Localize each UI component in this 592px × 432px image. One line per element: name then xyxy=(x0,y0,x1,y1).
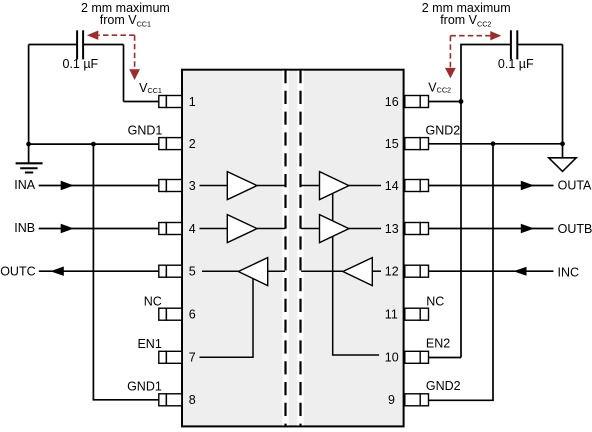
arrow INB input xyxy=(61,224,74,233)
junction GND2 drop xyxy=(491,141,496,146)
pin 14 box xyxy=(405,180,429,192)
svg-text:0.1 µF: 0.1 µF xyxy=(63,57,99,71)
svg-text:10: 10 xyxy=(385,351,399,365)
GND1 bus wire xyxy=(29,143,159,145)
red arrowhead down to VCC2 xyxy=(445,68,456,78)
wire buffer A2 to pin 14 xyxy=(349,185,381,187)
buffer C2 (input, points left) xyxy=(343,258,372,286)
pin 1 box xyxy=(159,96,182,108)
svg-text:GND1: GND1 xyxy=(128,124,163,138)
IC U1 body xyxy=(182,70,404,427)
pin 16 box xyxy=(405,96,429,108)
svg-text:0.1 µF: 0.1 µF xyxy=(498,57,534,71)
pin 13 box xyxy=(405,223,429,235)
wire barrier to buffer A2 xyxy=(301,185,319,187)
wire buffer A1 to barrier xyxy=(257,185,285,187)
svg-text:11: 11 xyxy=(385,308,398,322)
svg-text:16: 16 xyxy=(385,95,399,109)
pin 9 box xyxy=(405,394,429,406)
svg-text:8: 8 xyxy=(189,393,196,407)
svg-text:2: 2 xyxy=(189,137,196,151)
buffer B1 xyxy=(227,215,257,243)
buffer A2 xyxy=(320,172,349,200)
junction ground node xyxy=(26,142,31,147)
wire pin 16 to VCC2 node xyxy=(429,101,462,103)
isolation gap white stripe left xyxy=(282,71,288,426)
capacitor C2 0.1uF plates xyxy=(511,30,517,59)
GND2 bus wire xyxy=(429,143,563,145)
svg-text:GND1: GND1 xyxy=(127,379,162,393)
svg-text:OUTA: OUTA xyxy=(558,178,592,192)
wire barrier to buffer B2 xyxy=(301,228,319,230)
wire OUTB from pin 13 xyxy=(429,228,554,230)
svg-text:OUTC: OUTC xyxy=(0,265,35,279)
wire C1 left plate to left rail xyxy=(29,44,78,46)
svg-text:NC: NC xyxy=(426,295,444,309)
svg-text:NC: NC xyxy=(144,295,162,309)
wire EN1 inner xyxy=(200,279,254,358)
svg-text:GND2: GND2 xyxy=(426,123,461,137)
pin 6 box xyxy=(159,308,182,320)
wire OUTA from pin 14 xyxy=(429,185,554,187)
svg-text:6: 6 xyxy=(189,308,196,322)
wire VCC1 into pin 1 xyxy=(124,101,159,103)
wire VCC2 node up to C2 left plate and down to EN2 xyxy=(461,45,511,358)
svg-text:1: 1 xyxy=(189,95,196,109)
wire pin 3 to buffer A1 xyxy=(200,185,228,187)
pin 11 box xyxy=(405,308,429,320)
pin 15 box xyxy=(405,138,429,150)
junction VCC2 node xyxy=(459,99,464,104)
wire left rail down to GND1 bus xyxy=(28,45,30,145)
isolation gap white stripe right xyxy=(297,71,303,426)
wire GND2 drop to pin 9 xyxy=(429,144,494,401)
pin 4 box xyxy=(159,223,182,235)
arrow OUTA output xyxy=(521,181,534,190)
buffer B2 xyxy=(320,215,349,243)
svg-text:7: 7 xyxy=(189,351,196,365)
wire right rail down to GND2 bus xyxy=(562,45,564,144)
wire INA to pin 3 xyxy=(39,185,159,187)
red dashed arrow to C2 xyxy=(450,36,490,69)
pin 5 box xyxy=(159,265,182,277)
wire pin 5 to buffer C1out xyxy=(202,270,238,272)
svg-text:4: 4 xyxy=(189,222,196,236)
svg-text:15: 15 xyxy=(385,137,399,151)
pin 2 box xyxy=(159,138,182,150)
wire buffer C1out to barrier xyxy=(268,270,285,272)
wire buffer B2 to pin 13 xyxy=(349,228,381,230)
wire GND1 drop to pin 8 xyxy=(93,144,158,400)
isolation barrier dashed line right xyxy=(299,70,301,426)
buffer A1 xyxy=(227,172,257,200)
svg-text:EN1: EN1 xyxy=(137,337,161,351)
svg-text:INA: INA xyxy=(14,178,36,192)
wire INC to pin 12 xyxy=(429,270,554,272)
wire buffer B1 to barrier xyxy=(257,228,285,230)
wire pin 4 to buffer B1 xyxy=(200,228,228,230)
wire pin 12 to buffer C2in xyxy=(372,270,381,272)
svg-text:INC: INC xyxy=(558,265,580,279)
ground symbol right (triangle) xyxy=(562,144,564,158)
svg-text:OUTB: OUTB xyxy=(558,222,592,236)
svg-text:5: 5 xyxy=(189,265,196,279)
svg-text:12: 12 xyxy=(385,265,399,279)
pin 3 box xyxy=(159,180,182,192)
junction GND1 drop xyxy=(91,142,96,147)
capacitor C1 0.1uF plates xyxy=(77,30,83,59)
svg-text:GND2: GND2 xyxy=(426,379,461,393)
wire C2 right plate to right rail xyxy=(517,44,562,46)
wire OUTC from pin 5 xyxy=(39,270,159,272)
arrow OUTB output xyxy=(521,224,534,233)
svg-text:3: 3 xyxy=(189,179,196,193)
svg-text:14: 14 xyxy=(385,179,399,193)
pin 10 box xyxy=(405,351,429,363)
wire EN2 inner xyxy=(333,193,379,355)
ground symbol left (earth) xyxy=(16,144,43,172)
wire buffer C2in to barrier xyxy=(301,270,343,272)
svg-text:INB: INB xyxy=(14,221,35,235)
wire C1 right plate to corner xyxy=(83,44,123,46)
red arrowhead down to VCC1 xyxy=(129,69,140,80)
arrow INA input xyxy=(61,181,74,190)
pin 7 box xyxy=(159,351,182,363)
red dashed arrow to C1 xyxy=(99,35,135,70)
pin 8 box xyxy=(159,394,182,406)
isolation barrier dashed line left xyxy=(284,70,286,426)
wire EN2 to VCC2 rail xyxy=(429,357,462,359)
svg-text:9: 9 xyxy=(388,393,395,407)
junction ground node right xyxy=(560,141,565,146)
wire corner down to VCC1 pin wire xyxy=(123,45,125,102)
pin 12 box xyxy=(405,265,429,277)
buffer C1 (output, points left) xyxy=(238,258,267,286)
svg-text:EN2: EN2 xyxy=(426,337,450,351)
arrow OUTC output xyxy=(50,267,64,276)
svg-text:13: 13 xyxy=(385,222,399,236)
wire INB to pin 4 xyxy=(39,228,159,230)
arrow INC input xyxy=(514,267,527,276)
